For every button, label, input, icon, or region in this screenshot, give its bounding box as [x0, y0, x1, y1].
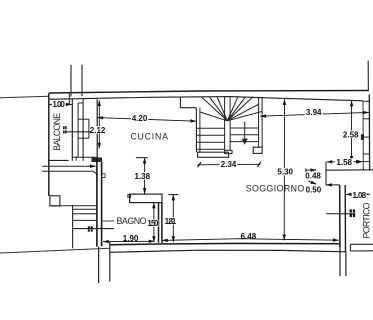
balcone bottom inner: [49, 159, 69, 161]
stair central foot: [225, 150, 232, 153]
svg-text:1.90: 1.90: [123, 234, 139, 243]
svg-text:1.81: 1.81: [165, 217, 177, 226]
right wall inner: [362, 101, 364, 170]
step 0: [73, 208, 97, 210]
pillar square: [50, 196, 60, 206]
right wall window tick 2: [363, 118, 370, 120]
portico bottom band left: [349, 244, 351, 251]
portico west wall line 1: [339, 185, 341, 247]
stair down arrow: [244, 122, 246, 141]
dim 6.48: [162, 232, 339, 241]
stair treads left: [196, 128, 224, 149]
wall stub above right x=368: [367, 61, 369, 91]
dim 3.94: [260, 108, 369, 117]
svg-text:0.48: 0.48: [305, 171, 321, 180]
svg-text:1.38: 1.38: [135, 172, 151, 181]
svg-text:CUCINA: CUCINA: [130, 132, 168, 142]
wall top outer: [49, 91, 369, 94]
stair central rail b: [229, 97, 231, 151]
corridor wall right: [109, 242, 111, 282]
west lower thick wall line 2: [101, 162, 103, 246]
boundary line top-left: [0, 96, 49, 98]
west window tick c: [78, 137, 89, 139]
steps left wall: [72, 205, 74, 248]
wall stub above x=71: [70, 65, 72, 97]
svg-text:2.58: 2.58: [343, 130, 359, 139]
boundary line bottom: [0, 248, 110, 253]
step 2: [73, 219, 97, 221]
west wall corner blob: [92, 158, 103, 163]
door symbol leader: [67, 131, 91, 133]
dim 1.08: [346, 191, 370, 200]
balcone wall end pair: [68, 93, 70, 105]
step 3 / door line: [73, 228, 114, 230]
svg-text:1.08: 1.08: [353, 191, 367, 200]
corridor wall left: [98, 247, 100, 283]
stair fan: [200, 97, 262, 121]
west wall bottom tick: [72, 156, 97, 158]
soggiorno step horiz with arrow: [326, 184, 340, 186]
svg-text:SOGGIORNO: SOGGIORNO: [246, 183, 305, 193]
balcone bottom line A with arrow: [42, 165, 96, 167]
bagno pier rect: [130, 194, 162, 203]
stair treads right: [230, 128, 259, 142]
dim 1.38: [134, 158, 151, 194]
stair notch: [180, 97, 196, 107]
svg-text:1.50: 1.50: [147, 219, 159, 228]
svg-text:5.30: 5.30: [277, 168, 293, 177]
stair left rail a: [195, 108, 197, 153]
dim 1.81: [164, 195, 177, 242]
svg-text:2.34: 2.34: [221, 160, 237, 169]
bottom wall inner: [109, 243, 340, 244]
dim 1.00: [49, 100, 72, 109]
right wall outer: [368, 95, 370, 171]
dim 1.81 tick: [168, 194, 178, 196]
bottom wall outer: [110, 250, 346, 252]
dim 1.50: [147, 203, 159, 242]
bagno east wall line 1: [158, 203, 160, 243]
west lower thick wall line 1: [96, 158, 98, 247]
right wall window tick 3: [363, 136, 370, 138]
portico door line: [326, 213, 355, 215]
svg-text:BAGNO: BAGNO: [117, 216, 147, 226]
svg-text:BALCONE: BALCONE: [52, 113, 62, 151]
stair left rail b: [199, 108, 201, 153]
portico top wall: [326, 169, 373, 171]
balcone door jamb 2: [82, 156, 84, 161]
svg-text:2.12: 2.12: [90, 126, 106, 135]
right wall handle blob: [361, 134, 364, 140]
cucina west wall inner: [96, 99, 98, 157]
right wall window tick 4: [363, 153, 370, 155]
dim 4.20: [97, 114, 196, 123]
wall top inner: [49, 97, 363, 101]
right wall window tick 1: [363, 100, 369, 102]
dim 2.34: [197, 160, 260, 169]
door swing diagonal: [93, 171, 98, 175]
balcone right wall: [71, 99, 73, 161]
bagno east wall line 2: [161, 203, 163, 243]
balcone door jamb 1: [75, 156, 77, 161]
dim 1.58: [326, 158, 369, 167]
svg-text:1.00: 1.00: [52, 100, 65, 109]
west window tick a: [78, 102, 83, 104]
dim 0.50 arrow: [308, 181, 316, 184]
cucina west window frame: [82, 99, 84, 157]
portico bottom band top: [350, 243, 373, 245]
dim 1.90: [103, 234, 155, 243]
pier nub: [128, 195, 131, 198]
dim 2.58: [343, 100, 359, 161]
dim 2.12: [90, 100, 106, 148]
dim 5.30: [277, 99, 294, 240]
stair central rail a: [224, 97, 226, 151]
right lower wall stub b: [345, 252, 347, 276]
small mark on wall: [102, 174, 105, 178]
stair right rail b: [261, 97, 263, 147]
svg-text:1.58: 1.58: [336, 158, 352, 167]
dim 1.38 tick: [136, 157, 148, 159]
stair right foot: [253, 147, 262, 153]
svg-text:4.20: 4.20: [132, 114, 148, 123]
cucina west window inner: [88, 119, 90, 138]
balcone left wall: [48, 93, 50, 196]
bagno fixture stub: [102, 220, 114, 222]
stair right rail a: [258, 97, 260, 147]
svg-text:0.50: 0.50: [306, 185, 322, 194]
portico door symbol: [350, 209, 355, 217]
svg-text:3.94: 3.94: [306, 108, 322, 117]
svg-text:6.48: 6.48: [241, 232, 257, 241]
stair bottom landing: [198, 152, 229, 157]
steps top line: [50, 205, 97, 207]
svg-text:PORTICO: PORTICO: [362, 202, 372, 238]
right lower wall stub a: [339, 244, 341, 276]
wall stub above x=82: [81, 65, 83, 96]
cucina west window frame left: [77, 103, 79, 157]
portico west wall line 2: [344, 185, 346, 252]
step 1: [73, 213, 97, 215]
bagno door symbol: [88, 226, 93, 231]
balcone bottom line B: [42, 170, 93, 172]
dim 0.48 arrows: [306, 168, 317, 172]
portico bottom band bottom: [350, 250, 373, 252]
west window tick b: [78, 118, 89, 120]
soggiorno step wall vertical 1: [325, 162, 327, 185]
balcony door symbol: [63, 126, 67, 133]
